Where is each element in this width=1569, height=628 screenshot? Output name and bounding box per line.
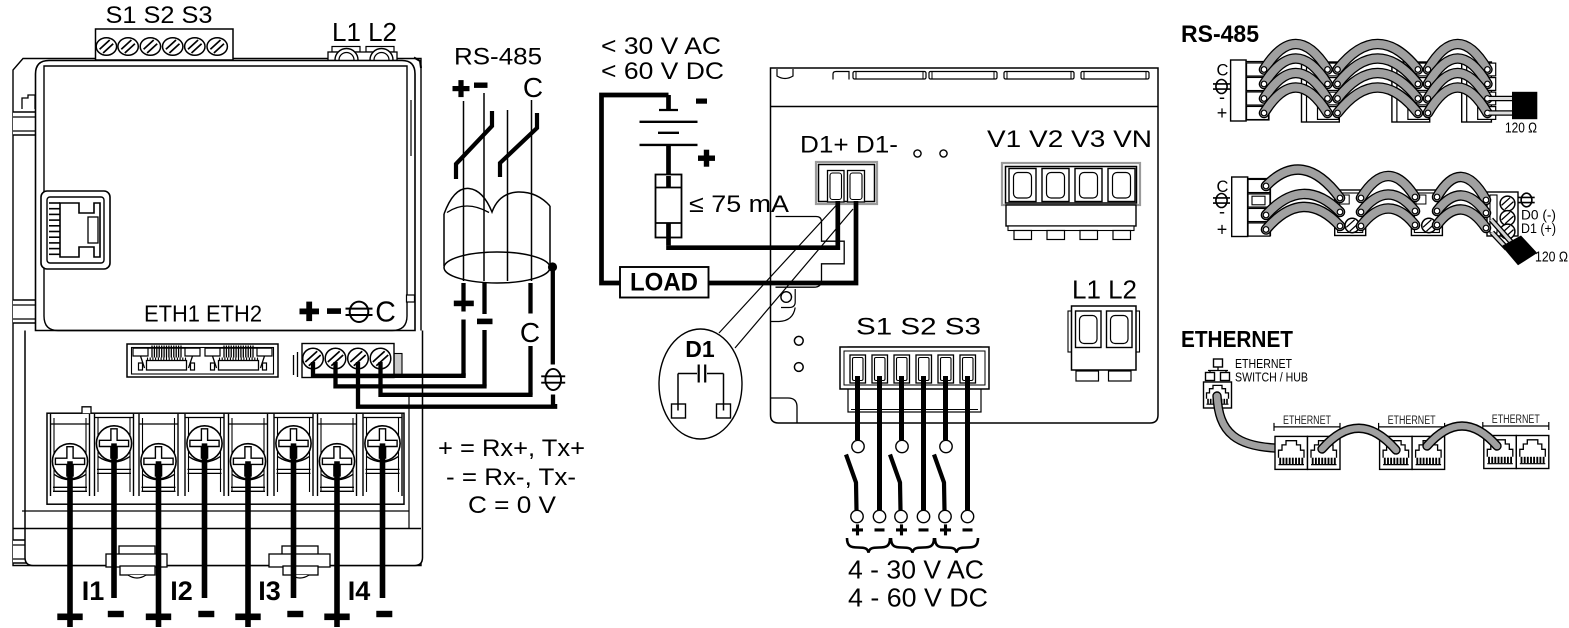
ETH1 jack (top view): [133, 346, 200, 371]
middle meter top vent notch A: [777, 69, 793, 79]
current terminal tower 2: [95, 414, 134, 496]
current wire 4- with minus terminal: [376, 443, 392, 617]
middle meter top vent notch B: [833, 72, 849, 80]
terminal block L1 L2 (middle meter): [1068, 306, 1140, 381]
left meter panel corner clip detail: [407, 295, 415, 302]
label ETHERNET (switch): [1235, 357, 1292, 371]
middle meter top slot 3: [1004, 72, 1074, 80]
svg-text:C = 0 V: C = 0 V: [468, 492, 556, 519]
ethernet meter 3 dimension line: [1483, 422, 1549, 430]
current terminal tower 4: [185, 414, 224, 496]
wire S1+ with switch: [846, 376, 864, 523]
svg-text:I4: I4: [348, 576, 371, 606]
current terminal tower 3: [139, 414, 178, 496]
svg-text:LOAD: LOAD: [630, 269, 698, 297]
brace under S3 pair: [935, 538, 978, 553]
label L1 L2 (left meter): [332, 17, 397, 47]
label S1 S2 S3 (left meter): [106, 2, 213, 29]
label D1 (+): [1521, 221, 1556, 236]
left meter DIN clip upper tab: [22, 95, 35, 109]
ETH2 jack (top view): [205, 346, 272, 371]
label S1 S2 S3 (middle meter): [856, 314, 981, 341]
legend - = Rx-, Tx-: [446, 464, 576, 491]
cable wire C (thin, above shield): [531, 100, 533, 281]
top chain cable + arc 2: [1338, 88, 1418, 114]
svg-text:< 60 V DC: < 60 V DC: [601, 58, 724, 85]
label I4: [348, 576, 371, 606]
ethernet cable switch to meter 1: [1217, 396, 1296, 448]
svg-text:S1 S2 S3: S1 S2 S3: [856, 314, 981, 341]
label 120 Ohm (top): [1505, 121, 1537, 137]
wire + below shield: [454, 283, 474, 376]
svg-text:S1 S2 S3: S1 S2 S3: [106, 2, 213, 29]
DIN rail clip foot right (left meter bottom): [269, 546, 330, 578]
label - (battery): [696, 99, 707, 104]
RS-485 screw terminal +: [303, 348, 324, 369]
top chain meter block 2: [1302, 62, 1340, 122]
earth label (end terminal): [1518, 193, 1534, 207]
wire C below shield: [528, 283, 532, 314]
label + (cable wire): [453, 80, 470, 97]
label C (cable wire, bottom): [520, 317, 540, 348]
earth label (bottom chain): [1213, 194, 1230, 208]
title RS-485: [1181, 21, 1259, 48]
ethernet switch RJ45 jack: [1204, 382, 1232, 408]
svg-text:ETHERNET: ETHERNET: [1388, 415, 1436, 427]
screw terminal 1 of top S1-S3 block: [96, 38, 116, 56]
RJ45 service port (left meter front): [41, 191, 110, 269]
top chain cable earth arc 1: [1264, 59, 1328, 85]
svg-text:L1 L2: L1 L2: [1072, 275, 1137, 305]
left meter lower shell: [25, 331, 423, 566]
label - (RS-485 legend): [327, 308, 341, 314]
label + (S3): [940, 524, 951, 535]
bottom chain block 1 (meter terminal): [1232, 177, 1271, 237]
brace under S1 pair: [847, 538, 890, 553]
svg-text:C: C: [375, 297, 396, 329]
label I2: [170, 576, 193, 606]
screw terminal 3 of top S1-S3 block: [140, 38, 160, 56]
top chain block 1 (meter terminal): [1231, 60, 1269, 121]
wire run earth (screw3 to shield): [358, 362, 555, 407]
legend + = Rx+, Tx+: [438, 435, 585, 462]
svg-text:-: -: [1219, 202, 1225, 222]
label 4 - 60 V DC: [848, 583, 988, 613]
D1 contact symbol: [672, 365, 731, 419]
label D1 (bubble): [685, 336, 715, 362]
terminator leads (top chain): [1489, 99, 1513, 114]
label ETHERNET (meter 2): [1388, 415, 1436, 427]
label < 30 V AC: [601, 33, 721, 60]
svg-text:≤ 75 mA: ≤ 75 mA: [689, 191, 789, 218]
label ETHERNET (meter 1): [1283, 415, 1331, 427]
top chain cable C arc 2: [1338, 44, 1418, 70]
legend C = 0 V: [468, 492, 556, 519]
wire C lower segment: [528, 346, 532, 395]
svg-text:ETHERNET: ETHERNET: [1283, 415, 1331, 427]
svg-text:I2: I2: [170, 576, 193, 606]
svg-text:4 - 60 V DC: 4 - 60 V DC: [848, 583, 988, 613]
wire battery left loop: [602, 95, 669, 283]
terminator resistor 120 Ohm (bottom chain, diagonal): [1502, 236, 1538, 266]
middle meter body outline: [771, 68, 1159, 423]
svg-text:C: C: [1217, 62, 1229, 80]
label + (RS-485 legend): [300, 302, 320, 322]
shield connection node (dot): [548, 262, 557, 271]
svg-text:RS-485: RS-485: [1181, 21, 1259, 48]
wire S2-: [917, 376, 929, 523]
current terminal tower 6: [274, 414, 313, 496]
top chain cable + arc 3: [1428, 88, 1488, 114]
label 4 - 30 V AC: [848, 555, 984, 585]
middle meter top rail line: [771, 106, 1159, 108]
label - (S2): [919, 528, 929, 531]
svg-text:D1 (+): D1 (+): [1521, 221, 1556, 236]
label - (S3): [963, 528, 973, 531]
middle meter mounting boss: [776, 217, 845, 288]
ETH1/ETH2 jack housing (left meter): [127, 344, 278, 377]
bottom chain meter block 2: [1335, 190, 1366, 236]
screw terminal 2 of top S1-S3 block: [118, 38, 138, 56]
svg-text:+: +: [1217, 103, 1228, 123]
ethernet meter 2 dimension line: [1379, 423, 1445, 431]
screw terminal 4 of top S1-S3 block: [163, 38, 183, 56]
middle meter pilot hole 2: [794, 363, 803, 372]
D1 detail bubble leader lines: [719, 205, 853, 349]
left meter main body outline: [36, 61, 416, 331]
terminal block L1 L2 (left meter, top): [328, 47, 397, 61]
label - (S1): [875, 528, 885, 531]
label + (bottom chain): [1217, 220, 1228, 240]
twisted pair mark 1: [456, 111, 492, 179]
bottom chain cable + arc 1: [1266, 207, 1340, 230]
label I3: [258, 576, 281, 606]
svg-text:SWITCH / HUB: SWITCH / HUB: [1235, 370, 1308, 385]
title ETHERNET: [1181, 326, 1293, 352]
middle meter top slot 1: [853, 72, 926, 80]
screw terminal 5 of top S1-S3 block: [185, 38, 205, 56]
middle meter pilot hole 1: [794, 336, 803, 345]
label ETH1 ETH2 (left meter): [144, 301, 262, 327]
label earth symbol (RS-485 legend): [346, 302, 373, 322]
current terminal tower 1: [51, 414, 90, 496]
top chain cable earth arc 3: [1428, 59, 1488, 85]
label SWITCH / HUB: [1235, 370, 1308, 385]
svg-text:< 30 V AC: < 30 V AC: [601, 33, 721, 60]
svg-text:4 - 30 V AC: 4 - 30 V AC: [848, 555, 984, 585]
label D1+ D1-: [800, 132, 898, 159]
current wire 2- with minus terminal: [198, 443, 214, 617]
top chain meter block 3: [1392, 62, 1430, 122]
current wire 4+ with plus terminal: [324, 461, 349, 627]
wire fuse to D1+: [666, 201, 838, 248]
current terminal tower 5: [229, 414, 268, 496]
label < 60 V DC: [601, 58, 724, 85]
top chain wire terminals gap 2: [1335, 67, 1421, 116]
label - (bottom chain): [1219, 202, 1225, 222]
label ETHERNET (meter 3): [1492, 414, 1540, 426]
label C (bottom chain): [1217, 178, 1229, 196]
current terminal tower 8: [363, 414, 402, 496]
D1 detail bubble: [659, 329, 742, 439]
label - (top chain): [1219, 87, 1225, 107]
bottom chain meter block 3: [1411, 190, 1442, 236]
cable wire Rx- (thin, above shield): [483, 93, 485, 281]
label + (battery): [698, 150, 715, 167]
left meter DIN clip upper: [13, 112, 47, 135]
top chain cable C arc 3: [1428, 44, 1488, 70]
label C (top chain): [1217, 62, 1229, 80]
top chain cable earth arc 2: [1338, 59, 1418, 85]
cable shield sheath (cylinder): [444, 188, 550, 283]
RS-485 screw terminal earth: [348, 348, 369, 369]
terminator leads (bottom chain): [1491, 220, 1512, 249]
bottom chain cable C arc 1: [1266, 170, 1340, 198]
current wire 2+ with plus terminal: [146, 461, 171, 627]
screw L2 (left meter): [370, 49, 393, 60]
bottom chain cable C arc 2: [1361, 176, 1415, 198]
status LED hole 1: [914, 150, 921, 157]
bottom chain end terminal block: [1487, 192, 1518, 239]
top chain cable C arc 1: [1264, 44, 1328, 70]
battery positive stub: [666, 145, 671, 176]
screw L1 (left meter): [335, 49, 358, 60]
svg-text:120 Ω: 120 Ω: [1535, 250, 1568, 266]
screw terminal 6 of top S1-S3 block: [207, 38, 227, 56]
left meter DIN clip middle: [13, 300, 47, 323]
terminal block D1+ D1-: [816, 162, 877, 204]
shield drain wire: [551, 267, 555, 365]
label V1 V2 V3 VN: [987, 126, 1152, 153]
ethernet cable meter2 to meter3: [1427, 426, 1497, 446]
svg-text:+: +: [1217, 220, 1228, 240]
earth symbol on shield wire: [541, 369, 565, 390]
left meter inner front panel: [44, 66, 407, 331]
current terminal tower 7: [318, 414, 357, 496]
bottom chain cable - arc 3: [1437, 195, 1486, 213]
label LOAD: [630, 269, 698, 297]
left meter DIN mounting plate: [13, 58, 421, 566]
RS-485 screw terminal C: [370, 348, 391, 369]
middle meter top slot 2: [929, 72, 997, 80]
label C (RS-485 legend): [375, 297, 396, 329]
wire S1-: [873, 376, 885, 523]
svg-text:I3: I3: [258, 576, 281, 606]
top chain wire terminals gap 3: [1425, 67, 1490, 116]
label L1 L2 (middle meter): [1072, 275, 1137, 305]
top chain wire terminals gap 1: [1261, 67, 1330, 116]
current wire 1+ with plus terminal: [57, 461, 82, 627]
ethernet meter 3 jack pair: [1484, 436, 1549, 469]
battery negative stub: [659, 95, 678, 110]
cable wire spare (thin): [507, 110, 509, 281]
left meter lower shell lines: [13, 511, 421, 529]
wire run - (screw2 to cable -): [336, 362, 487, 386]
label + (top chain): [1217, 103, 1228, 123]
wire LOAD to D1-: [709, 201, 857, 283]
svg-text:ETHERNET: ETHERNET: [1492, 414, 1540, 426]
earth label (top chain): [1213, 80, 1230, 94]
bottom chain cable + arc 3: [1437, 209, 1486, 228]
top chain meter block 4: [1462, 62, 1496, 122]
twisted pair mark 2: [500, 113, 537, 177]
left meter lower shell inner right line: [408, 397, 410, 528]
RS-485 terminal block (left meter): [294, 344, 403, 378]
wire S3-: [961, 376, 973, 523]
svg-text:L1 L2: L1 L2: [332, 17, 397, 47]
terminator resistor 120 Ohm (top chain): [1512, 92, 1537, 119]
battery B1 plates: [640, 122, 698, 145]
svg-text:C: C: [523, 72, 543, 103]
bottom chain cable - arc 1: [1266, 194, 1340, 215]
terminal block S1 S2 S3 (middle meter): [840, 347, 989, 412]
terminal block S1 S2 S3 (left meter, top): [96, 29, 234, 60]
terminal block V1 V2 V3 VN: [1002, 163, 1140, 240]
middle meter bottom-left step: [771, 398, 798, 423]
svg-text:C: C: [520, 317, 540, 348]
svg-text:+ = Rx+, Tx+: + = Rx+, Tx+: [438, 435, 585, 462]
bottom chain cable C arc 3: [1437, 177, 1486, 200]
bottom chain cable - arc 2: [1361, 194, 1415, 212]
wire run + (screw1 to cable +): [313, 362, 466, 378]
svg-text:ETH1 ETH2: ETH1 ETH2: [144, 301, 262, 327]
svg-text:120 Ω: 120 Ω: [1505, 121, 1537, 137]
left meter DIN clip lower: [13, 540, 47, 563]
middle meter boss screw tab: [771, 289, 795, 322]
current wire 1- with minus terminal: [108, 443, 124, 617]
wire - below shield: [477, 283, 493, 386]
RS-485 screw terminal -: [325, 348, 346, 369]
brace under S2 pair: [891, 538, 934, 553]
label <= 75 mA: [689, 191, 789, 218]
svg-text:D1: D1: [685, 336, 715, 362]
current terminal strip (left meter): [47, 407, 404, 504]
current wire 3+ with plus terminal: [235, 461, 260, 627]
top chain cable + arc 1: [1264, 88, 1328, 114]
bottom chain cable + arc 2: [1361, 208, 1415, 226]
ethernet cable meter1 to meter2: [1322, 428, 1396, 450]
svg-text:RS-485: RS-485: [454, 44, 542, 71]
top chain cable - arc 2: [1338, 73, 1418, 99]
svg-text:- = Rx-, Tx-: - = Rx-, Tx-: [446, 464, 576, 491]
cable wire Rx+ (thin, above shield): [463, 101, 465, 281]
current wire 3- with minus terminal: [287, 443, 303, 617]
svg-text:D1+ D1-: D1+ D1-: [800, 132, 898, 159]
wire S2+ with switch: [890, 376, 908, 523]
label - (cable wire): [474, 83, 488, 88]
ethernet meter 1 jack pair: [1275, 436, 1340, 469]
label D0 (-): [1521, 208, 1556, 223]
wire run C (screw4 to cable C): [381, 362, 533, 395]
label + (S2): [896, 524, 907, 535]
top chain cable - arc 1: [1264, 73, 1328, 99]
fuse F1 (<= 75 mA): [656, 175, 682, 246]
label I1: [82, 576, 105, 606]
label + (S1): [852, 524, 863, 535]
ethernet switch icon: [1206, 359, 1230, 381]
DIN rail clip foot left (left meter bottom): [106, 546, 167, 578]
shield wire lower segment: [551, 395, 555, 407]
label 120 Ohm (bottom): [1535, 250, 1568, 266]
label RS-485 (cable): [454, 44, 542, 71]
svg-text:ETHERNET: ETHERNET: [1181, 326, 1293, 352]
left meter right seam line: [410, 100, 412, 156]
svg-text:I1: I1: [82, 576, 105, 606]
svg-text:V1 V2 V3 VN: V1 V2 V3 VN: [987, 126, 1152, 153]
ethernet meter 2 jack pair: [1380, 436, 1445, 469]
wire S3+ with switch: [934, 376, 952, 523]
ethernet meter 1 dimension line: [1274, 423, 1340, 431]
middle meter top slot 4: [1081, 72, 1149, 80]
label C (cable wire, top): [523, 72, 543, 103]
top chain cable - arc 3: [1428, 73, 1488, 99]
LOAD box: [620, 267, 709, 298]
bottom chain wire terminals: [1263, 183, 1489, 232]
status LED hole 2: [940, 150, 947, 157]
